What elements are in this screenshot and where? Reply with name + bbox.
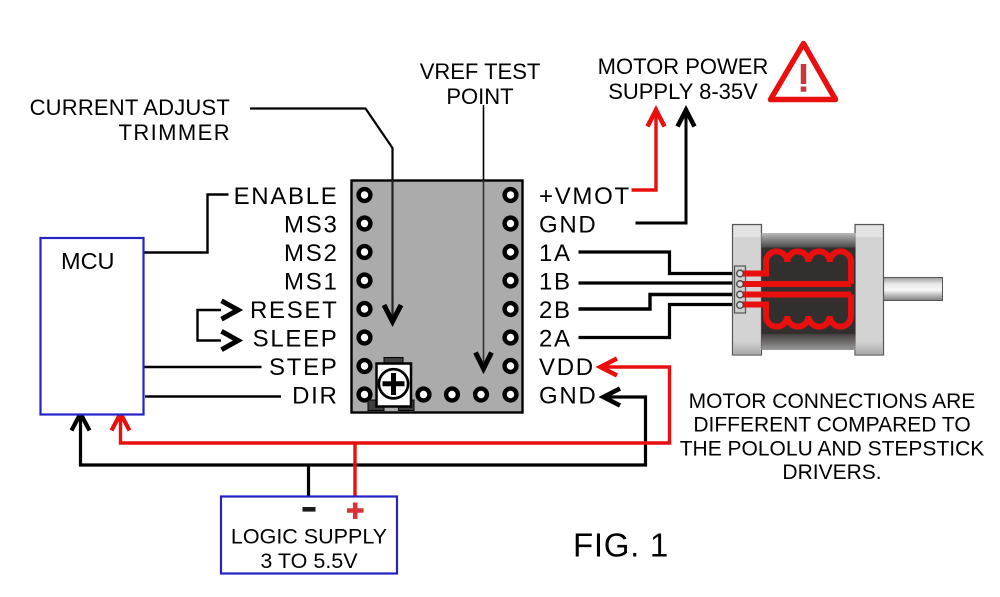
svg-text:DIFFERENT COMPARED TO: DIFFERENT COMPARED TO bbox=[693, 414, 970, 437]
svg-text:STEP: STEP bbox=[269, 354, 338, 381]
svg-text:GND: GND bbox=[539, 383, 597, 410]
svg-text:2A: 2A bbox=[539, 326, 572, 353]
svg-text:TRIMMER: TRIMMER bbox=[119, 120, 231, 145]
svg-text:SLEEP: SLEEP bbox=[253, 326, 339, 353]
svg-text:DRIVERS.: DRIVERS. bbox=[782, 461, 881, 484]
svg-text:MOTOR CONNECTIONS ARE: MOTOR CONNECTIONS ARE bbox=[689, 390, 976, 413]
svg-text:1A: 1A bbox=[539, 240, 572, 267]
svg-text:RESET: RESET bbox=[250, 297, 339, 324]
svg-text:DIR: DIR bbox=[292, 383, 338, 410]
svg-text:3 TO 5.5V: 3 TO 5.5V bbox=[260, 549, 358, 573]
svg-text:CURRENT ADJUST: CURRENT ADJUST bbox=[30, 95, 230, 120]
svg-text:+VMOT: +VMOT bbox=[539, 183, 631, 210]
svg-text:MS3: MS3 bbox=[284, 212, 338, 239]
svg-text:POINT: POINT bbox=[446, 84, 513, 109]
svg-text:MOTOR POWER: MOTOR POWER bbox=[598, 54, 769, 79]
svg-text:VDD: VDD bbox=[539, 354, 595, 381]
svg-text:THE POLOLU AND STEPSTICK: THE POLOLU AND STEPSTICK bbox=[680, 438, 985, 461]
svg-text:FIG. 1: FIG. 1 bbox=[573, 527, 669, 564]
svg-text:1B: 1B bbox=[539, 269, 572, 296]
svg-text:LOGIC SUPPLY: LOGIC SUPPLY bbox=[231, 525, 387, 549]
svg-text:VREF TEST: VREF TEST bbox=[420, 59, 541, 84]
svg-text:MCU: MCU bbox=[61, 248, 115, 274]
svg-text:MS2: MS2 bbox=[284, 240, 338, 267]
svg-text:ENABLE: ENABLE bbox=[234, 183, 339, 210]
svg-text:SUPPLY 8-35V: SUPPLY 8-35V bbox=[608, 79, 758, 104]
svg-text:MS1: MS1 bbox=[284, 269, 338, 296]
svg-text:GND: GND bbox=[539, 212, 597, 239]
svg-text:2B: 2B bbox=[539, 297, 572, 324]
